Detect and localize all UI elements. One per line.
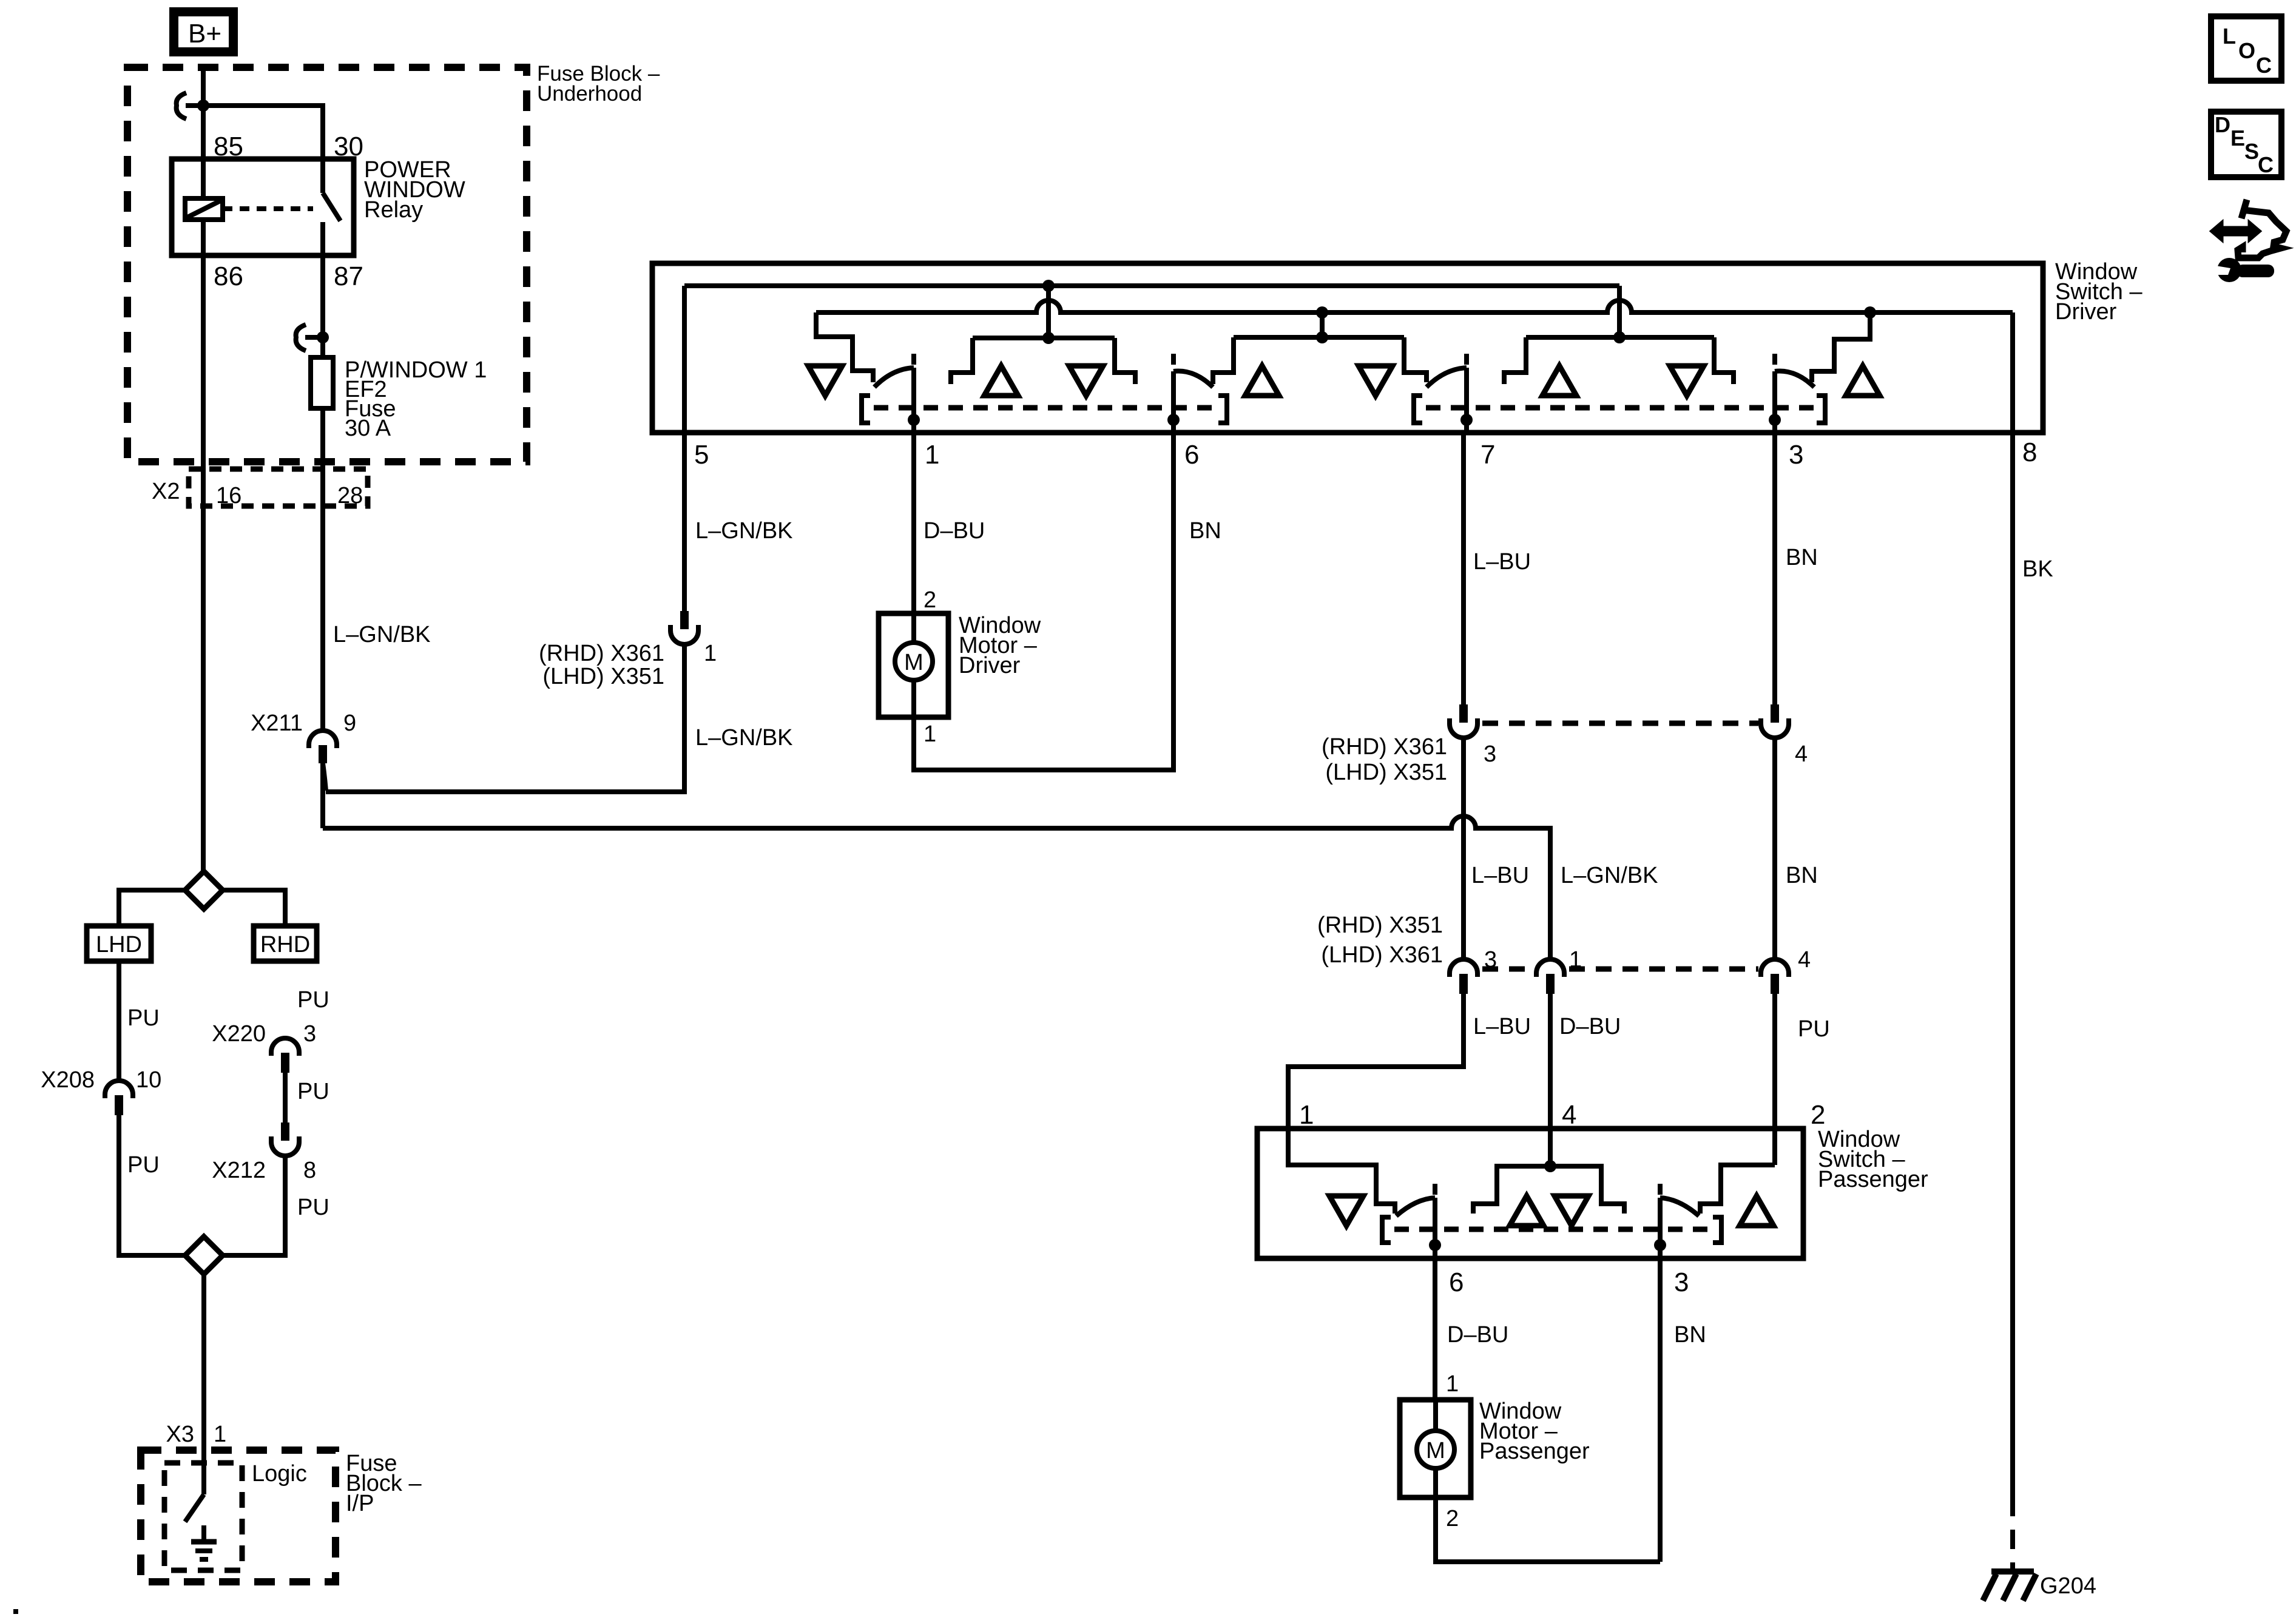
- svg-text:E: E: [2230, 126, 2245, 150]
- linkage bracket right pair2: [1817, 396, 1825, 423]
- wire diamond to X3: [201, 1274, 206, 1463]
- wire motor driver return BN: [914, 433, 1173, 770]
- label Window Switch - Driver: [2055, 259, 2142, 325]
- wire X208 to bottom diamond: [119, 1115, 185, 1255]
- switch S2: Window Switch - Passenger box: [1257, 1129, 1803, 1258]
- svg-text:L–GN/BK: L–GN/BK: [333, 622, 431, 647]
- svg-text:2: 2: [1446, 1506, 1459, 1531]
- svg-text:Driver: Driver: [2055, 299, 2117, 325]
- wire BK dashed to ground: [2010, 1497, 2015, 1568]
- logic dashed box: [164, 1463, 242, 1570]
- label Window Motor - Driver: [959, 613, 1041, 678]
- RHD option box: [254, 926, 317, 961]
- svg-text:3: 3: [1674, 1268, 1689, 1297]
- svg-text:RHD: RHD: [260, 932, 310, 957]
- connector row B link dashes: [1482, 967, 1758, 972]
- wire passenger pin2 feed: [1700, 1165, 1775, 1214]
- wire bus B common with hops: [816, 300, 2013, 312]
- wire pin1: [911, 368, 916, 433]
- wire contact feed pin1 right: [951, 338, 973, 384]
- svg-text:C: C: [2258, 152, 2274, 177]
- svg-text:1: 1: [1569, 947, 1582, 973]
- label (RHD) X361 (LHD) X351 row A: [1322, 734, 1447, 785]
- svg-text:Driver: Driver: [959, 653, 1021, 678]
- svg-text:D–BU: D–BU: [1559, 1014, 1621, 1039]
- wire pin5: [682, 286, 687, 433]
- wire passenger pin6: [1433, 1198, 1437, 1258]
- svg-text:(LHD) X351: (LHD) X351: [1325, 760, 1447, 785]
- LHD option box: [87, 926, 151, 961]
- connector row A link dashes: [1482, 721, 1758, 726]
- linkage bracket left pair2: [1414, 396, 1422, 423]
- node pin7: [1460, 414, 1473, 426]
- node bus B tap right: [1864, 306, 1876, 319]
- svg-text:6: 6: [1184, 440, 1199, 470]
- svg-text:1: 1: [1299, 1100, 1314, 1130]
- linkage bracket left passenger: [1382, 1217, 1391, 1243]
- connector X220 pin 3: [271, 1038, 299, 1073]
- ground G204: [1983, 1571, 2036, 1601]
- wire X212 to bottom diamond: [223, 1156, 285, 1255]
- wire pin8: [2010, 312, 2015, 433]
- svg-text:X220: X220: [212, 1021, 266, 1047]
- svg-text:3: 3: [1789, 440, 1803, 470]
- up triangle pin1: [984, 366, 1018, 396]
- wire L-BU between rows: [1461, 737, 1466, 959]
- wire passenger pin4 feed: [1473, 1166, 1624, 1214]
- node pin3: [1769, 414, 1781, 426]
- svg-text:G204: G204: [2040, 1573, 2096, 1599]
- wire X211 branch down: [320, 763, 325, 828]
- svg-text:2: 2: [1811, 1100, 1825, 1130]
- svg-text:LHD: LHD: [96, 932, 142, 957]
- switch arm pin7: [1427, 368, 1467, 387]
- svg-text:PU: PU: [297, 987, 329, 1013]
- service icon wrench: [2212, 258, 2274, 282]
- connector row B pin 1: [1536, 959, 1564, 994]
- svg-text:X211: X211: [251, 711, 303, 736]
- svg-text:PU: PU: [297, 1195, 329, 1220]
- svg-text:L–BU: L–BU: [1473, 549, 1531, 575]
- wire L-BU to passenger pin 1: [1288, 994, 1464, 1129]
- node bridge M: [1316, 331, 1328, 343]
- relay K: POWER WINDOW Relay box: [172, 159, 354, 255]
- svg-text:L–GN/BK: L–GN/BK: [695, 725, 793, 751]
- wire D-BU to passenger pin 4: [1548, 994, 1553, 1166]
- svg-text:30 A: 30 A: [345, 416, 391, 441]
- wire contact feed pin7 right: [1504, 337, 1526, 384]
- svg-text:(LHD) X361: (LHD) X361: [1321, 942, 1443, 968]
- switch arm pin3: [1775, 371, 1814, 387]
- wire PU to passenger pin 2: [1772, 994, 1777, 1165]
- node bus A tap: [1042, 280, 1055, 292]
- wire pin5 L-GN/BK down: [682, 433, 687, 611]
- page mark dot: [13, 1609, 18, 1614]
- DESC icon box: [2211, 112, 2281, 177]
- node fuse feed: [317, 331, 329, 343]
- svg-text:4: 4: [1562, 1100, 1576, 1130]
- svg-text:1: 1: [704, 641, 717, 666]
- wire pin6: [1171, 371, 1176, 433]
- label POWER WINDOW Relay: [364, 157, 465, 223]
- svg-text:B+: B+: [188, 19, 221, 49]
- switch arm passenger pin3: [1660, 1198, 1699, 1216]
- svg-text:10: 10: [136, 1067, 161, 1093]
- wire junction to relay pin 30: [203, 106, 323, 159]
- wire relay 87 to fuse: [320, 255, 325, 357]
- label Fuse Block - I/P: [346, 1451, 422, 1516]
- wire diamond to LHD: [119, 890, 185, 926]
- switch arm pin6: [1173, 371, 1213, 387]
- svg-text:(RHD) X361: (RHD) X361: [1322, 734, 1447, 760]
- svg-text:L–BU: L–BU: [1471, 863, 1529, 888]
- wire driver pin7 L-BU down: [1461, 433, 1466, 704]
- fuse block underhood dashed box: [127, 67, 527, 462]
- svg-text:8: 8: [303, 1158, 316, 1183]
- wire passenger pin3: [1658, 1198, 1663, 1258]
- wire bridge L2: [973, 336, 1115, 340]
- wire passenger pin6 to motor: [1433, 1258, 1437, 1400]
- svg-text:Underhood: Underhood: [537, 82, 642, 106]
- relay contact arm: [323, 159, 340, 255]
- svg-text:1: 1: [1446, 1371, 1459, 1397]
- logic switch blade: [185, 1463, 204, 1522]
- svg-text:(LHD) X351: (LHD) X351: [542, 664, 664, 689]
- wire X220 to X212: [283, 1073, 288, 1122]
- wire motor passenger return: [1436, 1497, 1660, 1562]
- wire fuse to X2-28: [320, 408, 325, 731]
- down triangle passenger pin6: [1329, 1196, 1363, 1226]
- wire contact feed pin1 left: [816, 312, 873, 382]
- linkage bracket right passenger: [1713, 1217, 1721, 1243]
- svg-text:2: 2: [923, 587, 936, 613]
- service icon double arrow: [2210, 221, 2261, 241]
- wire contact feed pin7 left: [1404, 337, 1427, 382]
- node diamond splice bottom: [185, 1237, 223, 1274]
- stub passenger pin3: [1658, 1184, 1663, 1195]
- wire B+ down: [201, 66, 206, 105]
- wire contact feed pin3 left: [1714, 337, 1734, 384]
- svg-text:I/P: I/P: [346, 1491, 374, 1516]
- svg-text:4: 4: [1798, 947, 1811, 973]
- linkage dashes pair2: [1426, 405, 1817, 411]
- svg-text:BN: BN: [1786, 863, 1818, 888]
- wire long L-GN/BK feed to passenger with hop: [323, 816, 1550, 959]
- fuse EF2 P/WINDOW 1 30 A: [311, 357, 333, 408]
- clip symbol at fuse node: [296, 325, 319, 351]
- svg-text:O: O: [2238, 38, 2255, 63]
- switch arm pin1: [874, 368, 914, 387]
- linkage dashes passenger: [1394, 1227, 1717, 1232]
- wire diamond to RHD: [223, 890, 285, 926]
- svg-text:3: 3: [1484, 741, 1496, 767]
- svg-text:6: 6: [1449, 1268, 1464, 1297]
- svg-text:(RHD) X361: (RHD) X361: [539, 641, 664, 666]
- svg-text:L: L: [2223, 24, 2236, 49]
- svg-text:M: M: [1426, 1438, 1445, 1463]
- up triangle passenger mid: [1510, 1196, 1544, 1226]
- up triangle pin6: [1245, 366, 1279, 396]
- wire bridge M: [1234, 335, 1404, 340]
- svg-text:8: 8: [2022, 437, 2037, 467]
- relay coil to contact dashed link: [223, 206, 313, 211]
- wire driver pin3 BN down: [1772, 433, 1777, 704]
- connector X211 pin 9: [309, 731, 337, 791]
- motor M2: Window Motor - Passenger: [1400, 1400, 1471, 1497]
- svg-text:X208: X208: [41, 1067, 95, 1093]
- svg-text:L–BU: L–BU: [1473, 1014, 1531, 1039]
- connector X208 pin 10: [105, 1081, 133, 1115]
- down triangle pin6: [1069, 366, 1103, 396]
- switch S1: Window Switch - Driver box: [652, 263, 2043, 433]
- wire pin3: [1772, 371, 1777, 433]
- svg-text:D–BU: D–BU: [923, 518, 985, 544]
- node B+ junction: [197, 100, 209, 112]
- svg-text:Passenger: Passenger: [1479, 1439, 1590, 1464]
- node bridge L2: [1042, 332, 1055, 344]
- connector X212 pin 8: [271, 1122, 299, 1156]
- svg-text:BN: BN: [1189, 518, 1221, 544]
- down triangle pin7: [1359, 366, 1393, 396]
- motor M1: Window Motor - Driver: [879, 613, 948, 717]
- svg-text:86: 86: [214, 262, 243, 291]
- node pin1: [908, 414, 920, 426]
- down triangle pin3: [1670, 366, 1704, 396]
- svg-text:Logic: Logic: [252, 1461, 307, 1487]
- svg-text:16: 16: [216, 483, 241, 508]
- ground symbol in logic: [191, 1525, 217, 1559]
- svg-text:1: 1: [925, 440, 939, 470]
- linkage dashes pair1: [874, 405, 1218, 411]
- down triangle pin1: [808, 366, 842, 396]
- stub pin3: [1772, 354, 1777, 365]
- clip symbol at B+ node: [177, 93, 200, 119]
- connector X2 dashed box: [189, 469, 368, 506]
- connector X361/X351 pin1 on L-GN/BK: [670, 611, 698, 644]
- wire LHD PU down: [116, 961, 121, 1081]
- LOC icon box: [2211, 16, 2281, 81]
- node bus B tap center: [1316, 306, 1328, 319]
- wire bus A feed from pin 5: [684, 283, 1619, 288]
- linkage bracket left pair1: [862, 396, 870, 423]
- connector row B pin 4: [1761, 959, 1789, 994]
- wire bus A to bridge R: [1617, 286, 1622, 337]
- up triangle pin3: [1846, 366, 1880, 396]
- fuse block I/P dashed box: [141, 1450, 336, 1582]
- label Window Switch - Passenger: [1818, 1127, 1928, 1192]
- label (RHD) X361 (LHD) X351: [539, 641, 664, 689]
- up triangle passenger right: [1740, 1196, 1774, 1226]
- node bridge R: [1613, 331, 1626, 343]
- svg-text:S: S: [2244, 139, 2259, 164]
- wire junction to relay pin 85: [201, 106, 206, 159]
- svg-text:X212: X212: [212, 1158, 266, 1183]
- stub passenger pin6: [1433, 1184, 1437, 1195]
- svg-text:7: 7: [1481, 440, 1495, 470]
- svg-text:3: 3: [303, 1021, 316, 1047]
- svg-text:9: 9: [343, 711, 356, 736]
- svg-text:3: 3: [1484, 947, 1497, 973]
- relay coil: [185, 159, 223, 255]
- node passenger pin4: [1544, 1160, 1556, 1172]
- label (RHD) X351 (LHD) X361 row B: [1317, 913, 1443, 968]
- svg-text:X2: X2: [152, 479, 180, 504]
- svg-text:L–GN/BK: L–GN/BK: [695, 518, 793, 544]
- svg-text:D: D: [2215, 112, 2230, 137]
- wire contact feed pin6 left: [1115, 338, 1135, 384]
- svg-text:Relay: Relay: [364, 197, 423, 223]
- switch arm passenger pin6: [1396, 1198, 1435, 1216]
- label P/WINDOW 1 EF2 Fuse 30 A: [345, 357, 487, 441]
- wire BN between rows: [1772, 737, 1777, 959]
- connector row A pin 4: [1761, 704, 1789, 738]
- wire contact feed pin3 right: [1812, 312, 1870, 382]
- wire passenger pin3 BN down: [1658, 1258, 1663, 1562]
- B+ battery feed box: [174, 12, 234, 52]
- svg-text:1: 1: [214, 1422, 226, 1447]
- connector row A pin 3: [1450, 704, 1477, 738]
- label Window Motor - Passenger: [1479, 1399, 1590, 1464]
- node passenger pin6: [1429, 1239, 1441, 1251]
- wire pin8 BK down: [2010, 433, 2015, 1497]
- svg-text:(RHD) X351: (RHD) X351: [1317, 913, 1443, 938]
- service icon panel outline: [2238, 200, 2286, 258]
- svg-text:4: 4: [1795, 741, 1808, 767]
- svg-text:PU: PU: [127, 1152, 160, 1178]
- svg-text:PU: PU: [297, 1079, 329, 1104]
- wire bus A to bridge L2: [1046, 286, 1051, 338]
- wire connector down to corner: [326, 643, 684, 792]
- wire bus B to bridge M: [1320, 312, 1325, 337]
- svg-text:BN: BN: [1786, 545, 1818, 570]
- svg-text:BN: BN: [1674, 1322, 1706, 1348]
- svg-text:C: C: [2256, 53, 2272, 78]
- svg-text:M: M: [904, 650, 923, 675]
- connector row B pin 3: [1450, 959, 1477, 994]
- up triangle pin7: [1542, 366, 1576, 396]
- wire contact feed pin6 right: [1213, 337, 1234, 384]
- svg-text:BK: BK: [2022, 556, 2053, 582]
- svg-text:X3: X3: [166, 1422, 194, 1447]
- down triangle passenger mid: [1555, 1196, 1589, 1226]
- svg-text:5: 5: [694, 440, 709, 470]
- node passenger pin3: [1654, 1239, 1666, 1251]
- svg-text:Passenger: Passenger: [1818, 1167, 1928, 1192]
- wire driver switch pin1 to motor: [911, 433, 916, 613]
- wire pin7: [1464, 368, 1469, 433]
- label Fuse Block - Underhood: [537, 62, 660, 106]
- wire bridge R: [1526, 335, 1714, 340]
- svg-text:1: 1: [923, 721, 936, 747]
- wire passenger pin1 feed: [1288, 1129, 1395, 1214]
- linkage bracket right pair1: [1218, 396, 1227, 423]
- svg-text:PU: PU: [127, 1005, 160, 1031]
- svg-text:L–GN/BK: L–GN/BK: [1561, 863, 1658, 888]
- node diamond splice top: [185, 871, 223, 909]
- stub pin1: [911, 354, 916, 365]
- wire relay 86 down through X2-16: [201, 255, 206, 871]
- stub pin7: [1464, 354, 1469, 365]
- svg-text:87: 87: [334, 262, 363, 291]
- svg-text:PU: PU: [1798, 1016, 1830, 1042]
- svg-text:D–BU: D–BU: [1447, 1322, 1508, 1348]
- node pin6: [1167, 414, 1180, 426]
- svg-text:28: 28: [337, 483, 363, 508]
- stub pin6: [1171, 354, 1176, 365]
